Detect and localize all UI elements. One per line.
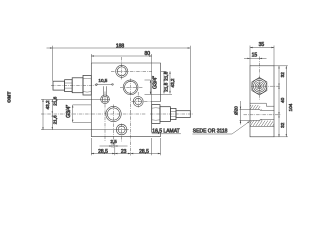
side cavity centerline (244, 114, 281, 116)
extension/centerline left y=99.3 hole A (41, 98, 110, 100)
label 16,5 LAMAT with underline (152, 128, 181, 134)
svg-text:43,2: 43,2 (170, 78, 175, 87)
svg-text:80: 80 (145, 51, 151, 57)
left cartridge centerline (51, 85, 97, 87)
dimension 188 overall top (47, 46, 191, 111)
svg-text:43,2: 43,2 (45, 100, 50, 109)
side view block (250, 66, 274, 137)
extension/centerline left y=129.6 hole C (41, 129, 129, 131)
svg-text:21,6: 21,6 (163, 71, 168, 80)
svg-text:188: 188 (116, 43, 125, 49)
front view block outline with milled pocket on right edge (91, 63, 160, 137)
dimension 2,5 bottom (100, 140, 128, 156)
port P1 small top port (116, 65, 128, 77)
svg-text:2,5: 2,5 (110, 139, 117, 144)
svg-text:OMT: OMT (6, 91, 12, 103)
svg-text:10,5: 10,5 (98, 78, 107, 83)
right cartridge centerline (150, 113, 193, 115)
side view hex plug (252, 78, 267, 95)
side hex centerlines (251, 57, 281, 100)
right cartridge valve: stem (176, 111, 190, 118)
mounting hole A with counterbore (101, 95, 110, 104)
side view hatching bottom band (250, 121, 274, 127)
svg-text:40: 40 (280, 97, 285, 103)
svg-text:104: 104 (288, 103, 293, 111)
side view cavity section outline (250, 103, 274, 126)
left cartridge valve: tip cap (53, 81, 65, 90)
hole B centerlines (132, 92, 152, 108)
port P2 centerlines (120, 79, 143, 156)
svg-text:SEDE OR 3118: SEDE OR 3118 (193, 129, 228, 135)
right cartridge valve: big hex at pocket face (152, 105, 160, 124)
left dimension line 43,2 (42, 99, 43, 130)
svg-text:Ø20: Ø20 (234, 106, 239, 115)
right extension lines (151, 71, 173, 94)
svg-text:G3/4”: G3/4” (153, 76, 159, 89)
side dimension line 104 (286, 66, 287, 137)
svg-text:15: 15 (252, 53, 258, 59)
right cartridge valve: body cylinder (160, 107, 170, 122)
left cartridge valve: body cylinder (72, 78, 83, 93)
extension/centerline left y=114 port P3 and right cartridge axis (41, 113, 146, 115)
port P3 vertical centerline (113, 105, 115, 149)
left G3/4 callout bracket for port P3 (72, 105, 91, 123)
port P3 big G3/4 bottom port (106, 106, 121, 121)
svg-text:21,6: 21,6 (53, 96, 58, 105)
svg-text:16,5 LAMAT: 16,5 LAMAT (152, 128, 179, 134)
svg-text:21,6: 21,6 (163, 82, 168, 91)
right dimension line 43,2 (169, 71, 170, 93)
svg-text:28,5: 28,5 (139, 149, 149, 155)
bottom dimension line 28,5 23 28,5 (91, 138, 160, 155)
port P1 centerlines (111, 57, 152, 80)
svg-text:21,6: 21,6 (53, 115, 58, 124)
svg-text:23: 23 (121, 149, 127, 155)
mounting hole B with counterbore (133, 97, 143, 107)
dimension 80 block width (91, 54, 151, 102)
dimension 15 side (244, 58, 267, 59)
dimension 10,5 (95, 84, 114, 86)
right G3/4 callout bracket for port P2 (145, 80, 152, 94)
right dimension line 21,6 21,6 (163, 71, 164, 93)
side view hatching top band (250, 105, 260, 109)
dimension diameter 20 (240, 101, 250, 125)
svg-text:G3/4”: G3/4” (66, 105, 72, 118)
right cartridge valve: small hex nut (170, 108, 176, 119)
port P2 big G3/4 top port (123, 80, 138, 95)
svg-text:28,5: 28,5 (98, 149, 108, 155)
mounting hole C with counterbore (116, 124, 127, 135)
hole A centerline vertical (104, 92, 106, 142)
side right extension lines (274, 66, 288, 137)
dimension 35 side top (250, 46, 274, 66)
svg-text:35: 35 (259, 42, 265, 48)
svg-text:32: 32 (280, 122, 285, 128)
hole A slot lines going up (103, 86, 106, 96)
side dimension line 32 40 32 (278, 66, 279, 137)
svg-text:32: 32 (280, 72, 285, 78)
left cartridge valve: big hex at block (83, 75, 91, 95)
left dimension line 21,6 21,6 (52, 99, 53, 130)
label SEDE OR 3118 with leader (192, 121, 249, 134)
hole C vertical centerline (121, 124, 123, 142)
left cartridge valve: small hex nut (65, 80, 73, 92)
